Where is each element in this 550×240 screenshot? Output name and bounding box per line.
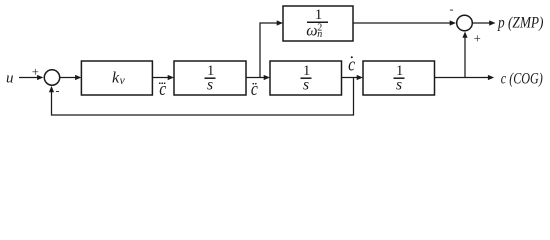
wire u to summing junction S1 [19,75,43,80]
svg-text:+: + [32,65,39,79]
input label u [6,71,14,87]
svg-text:c: c [159,79,166,100]
feedback wire from dot-c node to S1 [49,78,354,116]
wire node after I1 up to block W [260,20,283,77]
wire kv to integrator I1 [152,75,174,80]
svg-text:v: v [120,75,126,87]
label c (COG) [501,70,543,87]
wire W to summing junction S2 [353,20,456,25]
svg-text:c (COG): c (COG) [501,70,543,87]
svg-text:s: s [207,77,213,94]
summing junction S1 [44,70,59,85]
plus sign at S1 input [32,65,39,79]
svg-text:n: n [317,29,322,40]
block kv [81,61,152,95]
label ddot c [251,79,258,100]
wire node on output line up to S2 [462,32,467,78]
svg-text:p (ZMP): p (ZMP) [497,14,543,31]
wire S1 to block kv [60,75,82,80]
svg-text:-: - [56,84,60,98]
wire I3 to output c [435,75,495,80]
wire I1 to I2 [246,75,270,80]
block I2 1/s [270,61,342,95]
minus sign at S2 input [450,2,454,16]
svg-text:1: 1 [315,7,323,23]
block I3 1/s [363,61,435,95]
label dot c [348,54,355,75]
plus sign at S2 feedback input [474,32,481,46]
svg-text:-: - [450,2,454,16]
wire I2 to I3 [342,75,364,80]
label dddot c [159,79,167,100]
wire S2 to output p [472,20,495,25]
label p (ZMP) [497,14,543,31]
svg-text:c: c [251,79,258,100]
svg-text:ω: ω [306,22,317,39]
svg-text:s: s [303,77,309,94]
svg-text:u: u [6,71,14,87]
block W 1/omega_n^2 [283,6,353,41]
minus sign at S1 feedback input [56,84,60,98]
svg-text:s: s [396,77,402,94]
svg-text:+: + [474,32,481,46]
block I1 1/s [174,61,246,95]
summing junction S2 [457,15,473,31]
